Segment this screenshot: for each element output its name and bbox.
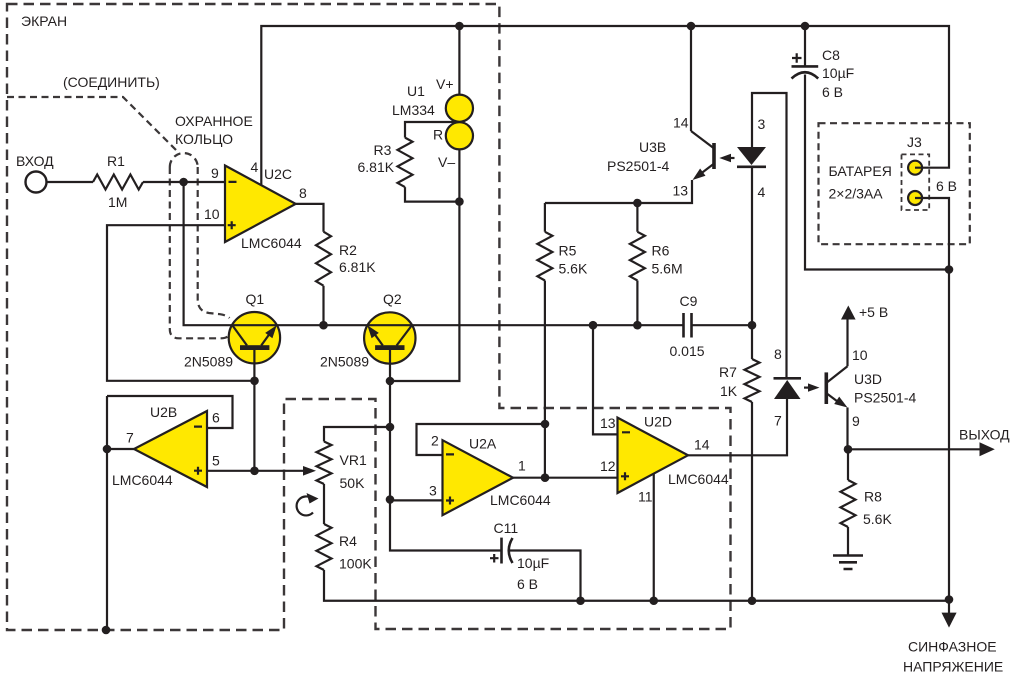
svg-text:6.81K: 6.81K: [358, 159, 395, 175]
svg-text:8: 8: [299, 185, 307, 201]
svg-text:Q2: Q2: [383, 291, 402, 307]
svg-text:10: 10: [852, 347, 868, 363]
svg-text:ЭКРАН: ЭКРАН: [21, 13, 67, 29]
svg-text:3: 3: [758, 116, 766, 132]
svg-text:V+: V+: [436, 76, 454, 92]
svg-text:LMC6044: LMC6044: [112, 472, 173, 488]
svg-text:U3B: U3B: [639, 139, 666, 155]
svg-text:9: 9: [852, 413, 860, 429]
svg-text:СИНФАЗНОЕ: СИНФАЗНОЕ: [908, 639, 997, 655]
svg-text:U2D: U2D: [644, 414, 672, 430]
svg-text:ОХРАННОЕ: ОХРАННОЕ: [175, 113, 253, 129]
svg-text:6: 6: [212, 410, 220, 426]
svg-text:LMC6044: LMC6044: [241, 235, 302, 251]
svg-text:R5: R5: [559, 243, 577, 259]
svg-text:4: 4: [251, 159, 259, 175]
svg-text:U3D: U3D: [854, 371, 882, 387]
svg-text:100K: 100K: [339, 556, 372, 572]
svg-text:4: 4: [758, 184, 766, 200]
svg-text:LMC6044: LMC6044: [490, 492, 551, 508]
svg-text:6 В: 6 В: [822, 84, 843, 100]
svg-text:LM334: LM334: [392, 102, 435, 118]
svg-text:5.6K: 5.6K: [559, 261, 588, 277]
svg-text:R7: R7: [719, 364, 737, 380]
svg-text:VR1: VR1: [340, 452, 367, 468]
svg-text:ВЫХОД: ВЫХОД: [959, 427, 1010, 443]
svg-text:12: 12: [600, 458, 616, 474]
svg-text:C9: C9: [680, 293, 698, 309]
svg-text:R: R: [433, 127, 443, 143]
svg-text:PS2501-4: PS2501-4: [854, 390, 916, 406]
svg-text:8: 8: [774, 346, 782, 362]
svg-text:R1: R1: [107, 153, 125, 169]
svg-text:R6: R6: [652, 243, 670, 259]
svg-text:R2: R2: [339, 242, 357, 258]
svg-text:10µF: 10µF: [517, 555, 549, 571]
svg-text:14: 14: [673, 115, 689, 131]
svg-text:0.015: 0.015: [670, 343, 705, 359]
svg-text:R3: R3: [374, 142, 392, 158]
svg-text:5: 5: [212, 453, 220, 469]
svg-text:6 В: 6 В: [936, 178, 957, 194]
svg-text:2N5089: 2N5089: [184, 354, 233, 370]
svg-text:КОЛЬЦО: КОЛЬЦО: [175, 131, 233, 147]
svg-text:5.6K: 5.6K: [863, 511, 892, 527]
svg-text:ВХОД: ВХОД: [16, 153, 54, 169]
svg-text:2N5089: 2N5089: [320, 354, 369, 370]
svg-text:V–: V–: [438, 154, 455, 170]
svg-text:C8: C8: [822, 47, 840, 63]
svg-text:LMC6044: LMC6044: [668, 471, 729, 487]
svg-text:R4: R4: [339, 533, 357, 549]
svg-text:1: 1: [518, 458, 526, 474]
svg-text:БАТАРЕЯ: БАТАРЕЯ: [829, 163, 892, 179]
svg-text:13: 13: [600, 415, 616, 431]
svg-text:(СОЕДИНИТЬ): (СОЕДИНИТЬ): [63, 74, 160, 90]
svg-text:НАПРЯЖЕНИЕ: НАПРЯЖЕНИЕ: [903, 659, 1003, 675]
svg-text:U1: U1: [407, 83, 425, 99]
svg-text:11: 11: [638, 489, 653, 505]
svg-text:1M: 1M: [108, 194, 127, 210]
svg-text:13: 13: [673, 183, 689, 199]
svg-text:2×2/3АА: 2×2/3АА: [829, 186, 884, 202]
svg-text:2: 2: [431, 433, 439, 449]
svg-text:9: 9: [211, 165, 219, 181]
svg-text:U2B: U2B: [150, 404, 177, 420]
svg-text:U2A: U2A: [469, 436, 497, 452]
svg-text:7: 7: [126, 430, 134, 446]
svg-text:+5 В: +5 В: [859, 304, 888, 320]
svg-text:Q1: Q1: [246, 291, 265, 307]
svg-text:10: 10: [204, 206, 220, 222]
svg-text:50K: 50K: [340, 475, 366, 491]
svg-text:6 В: 6 В: [517, 576, 538, 592]
svg-text:6.81K: 6.81K: [339, 259, 376, 275]
svg-text:5.6M: 5.6M: [652, 261, 683, 277]
svg-text:10µF: 10µF: [822, 65, 854, 81]
svg-text:1K: 1K: [720, 383, 738, 399]
svg-text:3: 3: [429, 483, 437, 499]
svg-text:J3: J3: [907, 134, 922, 150]
svg-text:14: 14: [694, 437, 710, 453]
svg-text:U2C: U2C: [264, 166, 292, 182]
svg-text:7: 7: [774, 413, 782, 429]
svg-text:PS2501-4: PS2501-4: [607, 158, 669, 174]
svg-text:C11: C11: [494, 520, 519, 536]
svg-text:R8: R8: [864, 489, 882, 505]
